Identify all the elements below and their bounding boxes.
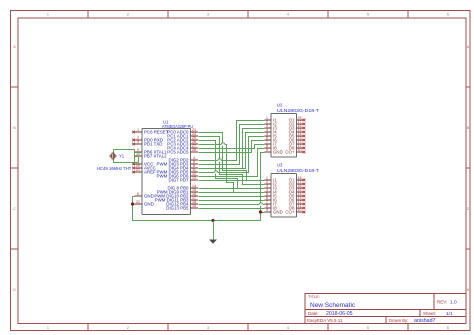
svg-text:22: 22	[136, 200, 140, 204]
svg-text:3: 3	[137, 140, 139, 144]
svg-text:PB7 XTAL2: PB7 XTAL2	[144, 154, 167, 159]
svg-text:9: 9	[266, 208, 268, 212]
svg-text:9: 9	[266, 148, 268, 152]
svg-text:Y1: Y1	[119, 154, 125, 159]
svg-text:1: 1	[137, 128, 139, 132]
svg-text:HC49 16MHz THT: HC49 16MHz THT	[97, 166, 132, 171]
svg-text:5: 5	[367, 326, 369, 330]
svg-text:4: 4	[287, 326, 289, 330]
svg-text:PC5 ADC5: PC5 ADC5	[167, 150, 189, 155]
svg-text:anishad7: anishad7	[414, 318, 436, 324]
svg-text:Drawn By:: Drawn By:	[389, 318, 408, 323]
svg-text:19: 19	[192, 204, 196, 208]
svg-text:New Schematic: New Schematic	[310, 302, 356, 309]
svg-text:GND: GND	[273, 150, 283, 155]
svg-text:3: 3	[207, 12, 209, 16]
svg-text:1: 1	[47, 326, 49, 330]
svg-text:1.0: 1.0	[450, 300, 457, 306]
svg-text:GND: GND	[144, 202, 154, 207]
svg-text:2: 2	[127, 326, 129, 330]
svg-text:6: 6	[447, 326, 449, 330]
svg-text:1: 1	[47, 12, 49, 16]
svg-text:6: 6	[447, 12, 449, 16]
svg-text:GND: GND	[273, 210, 283, 215]
svg-text:TITLE:: TITLE:	[308, 294, 320, 299]
svg-text:PC6 RESET: PC6 RESET	[144, 130, 169, 135]
svg-text:AREF: AREF	[144, 170, 156, 175]
svg-text:U3: U3	[277, 163, 283, 168]
svg-text:10: 10	[298, 208, 302, 212]
svg-text:3: 3	[207, 326, 209, 330]
svg-text:GND: GND	[144, 194, 154, 199]
svg-text:Sheet:: Sheet:	[423, 311, 436, 316]
svg-text:4: 4	[287, 12, 289, 16]
svg-text:DIG7 PD7: DIG7 PD7	[168, 178, 189, 183]
svg-text:2: 2	[127, 12, 129, 16]
svg-text:CO+: CO+	[285, 150, 295, 155]
svg-text:ULN2803G-D18-T: ULN2803G-D18-T	[277, 108, 319, 113]
svg-text:U2: U2	[277, 103, 283, 108]
svg-text:21: 21	[136, 168, 140, 172]
svg-text:ULN2803G-D18-T: ULN2803G-D18-T	[277, 168, 319, 173]
svg-text:13: 13	[192, 176, 196, 180]
svg-text:8: 8	[137, 192, 139, 196]
svg-text:REV:: REV:	[437, 300, 447, 305]
svg-text:EasyEDA V5.5.11: EasyEDA V5.5.11	[307, 318, 343, 323]
svg-text:CO+: CO+	[285, 210, 295, 215]
svg-text:28: 28	[192, 148, 196, 152]
svg-text:ATMEGA328P-PU: ATMEGA328P-PU	[162, 124, 193, 129]
svg-text:5: 5	[367, 12, 369, 16]
svg-text:DIG13 PB5: DIG13 PB5	[166, 206, 189, 211]
svg-text:Date:: Date:	[308, 311, 319, 316]
svg-text:2018-06-05: 2018-06-05	[326, 311, 353, 317]
svg-text:PD1 TXD: PD1 TXD	[144, 142, 162, 147]
svg-text:1/1: 1/1	[446, 311, 453, 317]
svg-text:10: 10	[298, 148, 302, 152]
